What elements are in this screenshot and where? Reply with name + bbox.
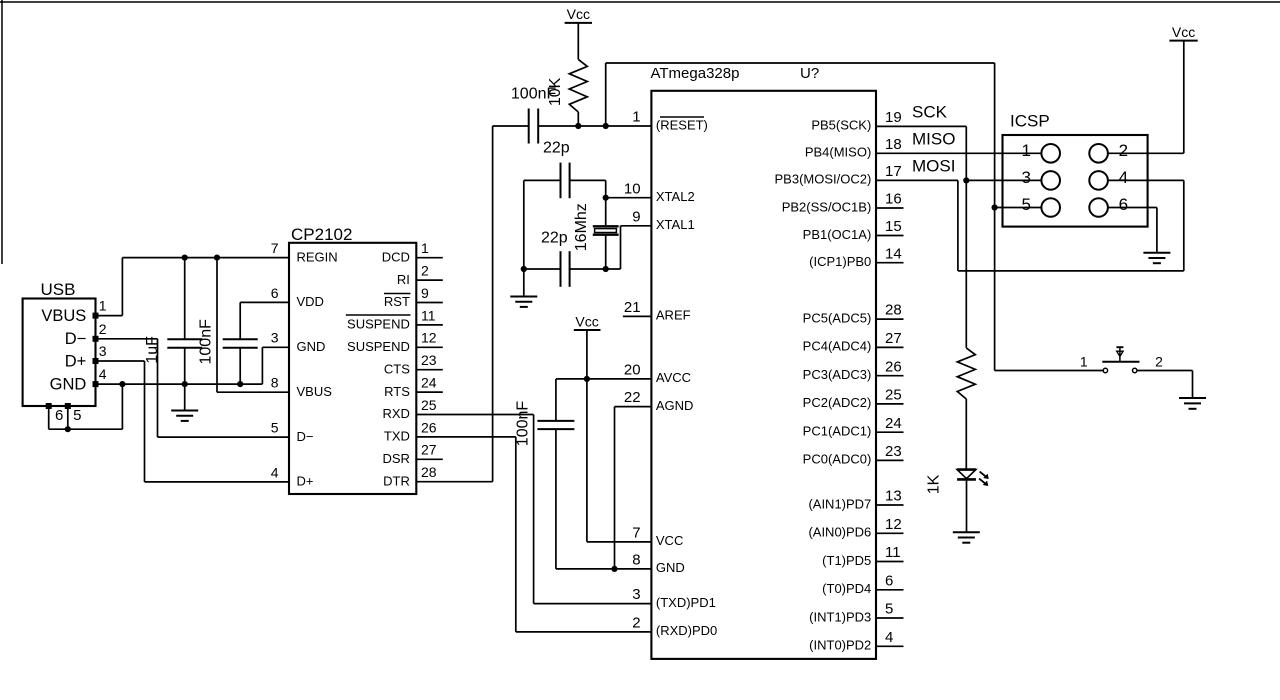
svg-text:9: 9 <box>632 208 640 225</box>
svg-text:RTS: RTS <box>384 384 410 399</box>
svg-text:11: 11 <box>885 544 901 561</box>
svg-text:(T0)PD4: (T0)PD4 <box>822 581 871 596</box>
svg-text:(RESET): (RESET) <box>656 117 708 132</box>
svg-text:TXD: TXD <box>384 429 410 444</box>
svg-text:RST: RST <box>384 294 410 309</box>
svg-text:22p: 22p <box>543 139 570 156</box>
svg-text:5: 5 <box>1022 195 1031 214</box>
svg-text:18: 18 <box>885 136 902 153</box>
svg-text:GND: GND <box>50 375 87 393</box>
svg-text:CP2102: CP2102 <box>291 225 352 244</box>
svg-text:5: 5 <box>73 407 81 424</box>
svg-text:(AIN0)PD6: (AIN0)PD6 <box>808 525 871 540</box>
svg-text:PC3(ADC3): PC3(ADC3) <box>803 367 872 382</box>
svg-text:100nF: 100nF <box>198 319 215 365</box>
svg-text:XTAL1: XTAL1 <box>656 217 695 232</box>
svg-text:RXD: RXD <box>382 406 409 421</box>
svg-text:2: 2 <box>99 321 107 337</box>
svg-text:5: 5 <box>885 601 893 618</box>
svg-text:1: 1 <box>421 240 429 256</box>
svg-text:CTS: CTS <box>384 361 410 376</box>
svg-text:PB5(SCK): PB5(SCK) <box>811 118 871 133</box>
svg-text:15: 15 <box>885 218 902 235</box>
svg-text:D−: D− <box>65 330 87 348</box>
svg-text:XTAL2: XTAL2 <box>656 189 695 204</box>
svg-text:6: 6 <box>885 572 893 589</box>
svg-text:21: 21 <box>624 299 641 316</box>
svg-text:RI: RI <box>397 272 410 287</box>
svg-text:PB1(OC1A): PB1(OC1A) <box>803 227 872 242</box>
svg-text:SUSPEND: SUSPEND <box>347 339 410 354</box>
svg-text:24: 24 <box>421 375 437 391</box>
svg-text:14: 14 <box>885 245 902 262</box>
svg-text:2: 2 <box>632 615 640 632</box>
svg-text:REGIN: REGIN <box>297 249 338 264</box>
svg-text:5: 5 <box>271 420 279 436</box>
svg-text:DTR: DTR <box>383 473 410 488</box>
svg-text:10K: 10K <box>547 77 564 106</box>
svg-text:(INT0)PD2: (INT0)PD2 <box>809 638 871 653</box>
svg-text:PB2(SS/OC1B): PB2(SS/OC1B) <box>782 199 872 214</box>
svg-text:17: 17 <box>885 163 902 180</box>
svg-text:8: 8 <box>271 375 279 391</box>
svg-text:AGND: AGND <box>656 398 694 413</box>
svg-text:1: 1 <box>1080 353 1088 369</box>
svg-text:3: 3 <box>1022 168 1031 187</box>
svg-text:25: 25 <box>885 387 902 404</box>
svg-text:6: 6 <box>271 285 279 301</box>
svg-text:VBUS: VBUS <box>41 307 86 325</box>
svg-text:19: 19 <box>885 109 902 126</box>
svg-text:22: 22 <box>624 389 641 406</box>
svg-text:28: 28 <box>421 464 437 480</box>
svg-text:D+: D+ <box>297 474 314 489</box>
svg-text:12: 12 <box>421 330 437 346</box>
svg-text:1K: 1K <box>926 474 943 494</box>
svg-text:25: 25 <box>421 397 437 413</box>
svg-text:4: 4 <box>99 366 107 382</box>
svg-text:1: 1 <box>632 109 640 126</box>
svg-text:20: 20 <box>624 362 641 379</box>
svg-text:(AIN1)PD7: (AIN1)PD7 <box>808 496 871 511</box>
svg-text:26: 26 <box>885 358 902 375</box>
svg-text:Vcc: Vcc <box>575 313 598 329</box>
svg-text:1: 1 <box>99 298 107 314</box>
svg-text:16: 16 <box>885 191 902 208</box>
svg-text:4: 4 <box>1119 168 1128 187</box>
svg-text:PC1(ADC1): PC1(ADC1) <box>803 424 872 439</box>
svg-text:9: 9 <box>421 285 429 301</box>
svg-text:28: 28 <box>885 302 902 319</box>
svg-text:ICSP: ICSP <box>1010 112 1050 131</box>
svg-text:AREF: AREF <box>656 308 691 323</box>
svg-text:8: 8 <box>632 552 640 569</box>
svg-text:22p: 22p <box>541 230 568 247</box>
svg-text:3: 3 <box>271 330 279 346</box>
svg-text:PB4(MISO): PB4(MISO) <box>805 145 871 160</box>
svg-text:1: 1 <box>1022 141 1031 160</box>
svg-text:27: 27 <box>421 442 437 458</box>
svg-text:11: 11 <box>421 307 436 323</box>
svg-text:26: 26 <box>421 419 437 435</box>
svg-text:MISO: MISO <box>912 129 955 148</box>
svg-text:VBUS: VBUS <box>297 384 333 399</box>
svg-text:6: 6 <box>55 407 63 424</box>
svg-text:GND: GND <box>297 339 326 354</box>
svg-text:1uF: 1uF <box>144 336 161 364</box>
svg-text:(INT1)PD3: (INT1)PD3 <box>809 609 871 624</box>
svg-text:PC4(ADC4): PC4(ADC4) <box>803 339 872 354</box>
svg-text:(T1)PD5: (T1)PD5 <box>822 553 871 568</box>
svg-text:3: 3 <box>99 343 107 359</box>
svg-text:SUSPEND: SUSPEND <box>347 317 410 332</box>
svg-text:ATmega328p: ATmega328p <box>651 65 740 82</box>
svg-text:DCD: DCD <box>382 249 410 264</box>
svg-text:PC2(ADC2): PC2(ADC2) <box>803 395 872 410</box>
svg-text:6: 6 <box>1119 195 1128 214</box>
svg-text:PC0(ADC0): PC0(ADC0) <box>803 452 872 467</box>
svg-text:(TXD)PD1: (TXD)PD1 <box>656 595 716 610</box>
svg-text:10: 10 <box>624 180 641 197</box>
svg-text:SCK: SCK <box>912 103 948 122</box>
svg-text:USB: USB <box>41 280 76 299</box>
svg-text:D−: D− <box>297 429 314 444</box>
svg-text:PB3(MOSI/OC2): PB3(MOSI/OC2) <box>775 172 872 187</box>
svg-text:24: 24 <box>885 415 902 432</box>
svg-text:23: 23 <box>421 352 437 368</box>
svg-text:2: 2 <box>1119 141 1128 160</box>
svg-text:4: 4 <box>271 464 279 480</box>
svg-text:DSR: DSR <box>382 451 409 466</box>
svg-text:23: 23 <box>885 443 902 460</box>
svg-text:16Mhz: 16Mhz <box>573 203 590 251</box>
svg-text:(ICP1)PB0: (ICP1)PB0 <box>809 254 871 269</box>
svg-text:100nF: 100nF <box>515 401 532 447</box>
svg-text:PC5(ADC5): PC5(ADC5) <box>803 310 872 325</box>
svg-text:13: 13 <box>885 488 902 505</box>
svg-text:VDD: VDD <box>297 294 324 309</box>
svg-text:D+: D+ <box>65 352 87 370</box>
svg-text:7: 7 <box>632 525 640 542</box>
svg-text:GND: GND <box>656 560 685 575</box>
svg-text:Vcc: Vcc <box>567 6 590 22</box>
svg-text:(RXD)PD0: (RXD)PD0 <box>656 623 717 638</box>
svg-text:12: 12 <box>885 516 902 533</box>
svg-text:27: 27 <box>885 330 902 347</box>
svg-text:VCC: VCC <box>656 533 683 548</box>
svg-text:AVCC: AVCC <box>656 370 691 385</box>
svg-text:2: 2 <box>421 263 429 279</box>
svg-text:Vcc: Vcc <box>1172 24 1195 40</box>
svg-text:MOSI: MOSI <box>912 156 955 175</box>
svg-text:3: 3 <box>632 586 640 603</box>
svg-text:2: 2 <box>1155 353 1163 369</box>
svg-text:7: 7 <box>271 240 279 256</box>
svg-text:U?: U? <box>800 65 819 82</box>
svg-text:4: 4 <box>885 629 893 646</box>
